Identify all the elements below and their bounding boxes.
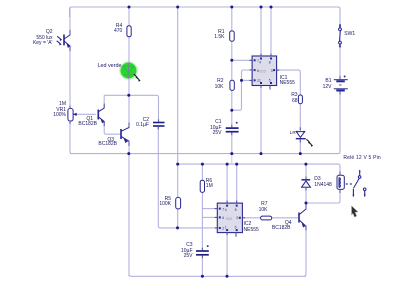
svg-text:5: 5: [269, 79, 271, 83]
svg-text:6: 6: [222, 216, 224, 220]
svg-text:8: 8: [269, 61, 271, 65]
svg-text:8: 8: [235, 208, 237, 212]
svg-text:555: 555: [226, 216, 233, 221]
svg-text:5: 5: [235, 226, 237, 230]
svg-text:4: 4: [225, 208, 227, 212]
svg-text:555: 555: [259, 69, 266, 74]
svg-text:6: 6: [257, 69, 259, 73]
svg-text:4: 4: [259, 61, 261, 65]
svg-text:1: 1: [259, 79, 261, 83]
svg-text:3: 3: [236, 216, 238, 220]
svg-text:1: 1: [225, 226, 227, 230]
svg-text:3: 3: [271, 69, 273, 73]
